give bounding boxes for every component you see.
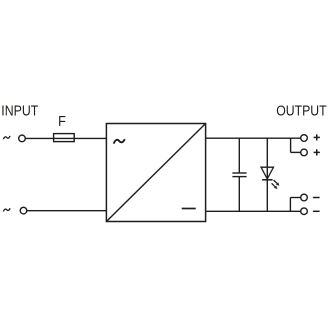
+ terminals bracket stub (291, 151, 301, 153)
wire box to + terminals (top rail) (206, 137, 301, 139)
terminal circle +1 (301, 135, 308, 142)
plus sign 2 (314, 149, 320, 155)
terminal circle input N (20, 207, 27, 214)
LED D1 triangle (261, 167, 274, 179)
minus sign 2 (313, 210, 320, 212)
svg-text:F: F (58, 114, 66, 130)
terminal circle -2 (301, 208, 308, 215)
LED D1 light arrow 2 (272, 183, 278, 189)
converter DC side minus symbol (182, 208, 196, 210)
- terminals bracket vertical (289, 198, 291, 212)
svg-text:OUTPUT: OUTPUT (276, 102, 326, 119)
- terminals bracket stub (290, 197, 300, 199)
wire input N to box (27, 210, 107, 212)
+ terminals bracket vertical (290, 138, 292, 152)
converter AC side ~ symbol (114, 139, 125, 143)
converter box U1 (106, 124, 205, 222)
LED D1 cathode bar (262, 179, 273, 181)
AC symbol ~ (input N) (3, 208, 10, 211)
capacitor C1 branch upper wire (238, 138, 240, 173)
plus sign 1 (314, 134, 320, 140)
svg-text:INPUT: INPUT (1, 103, 38, 120)
AC symbol ~ (input L) (3, 136, 10, 139)
terminal circle -1 (301, 194, 308, 201)
capacitor C1 plates (232, 172, 246, 174)
wire box to - terminals (bottom rail) (206, 210, 301, 212)
terminal circle +2 (301, 149, 308, 156)
LED D1 light arrow 1 (274, 180, 280, 186)
converter diagonal (106, 124, 205, 222)
capacitor C1 branch lower wire (238, 177, 240, 212)
LED D1 branch wire (266, 138, 268, 211)
terminal circle input L (19, 135, 26, 142)
minus sign 1 (313, 197, 320, 199)
wire input L to fuse to box (25, 137, 106, 139)
fuse F rect (54, 134, 75, 142)
